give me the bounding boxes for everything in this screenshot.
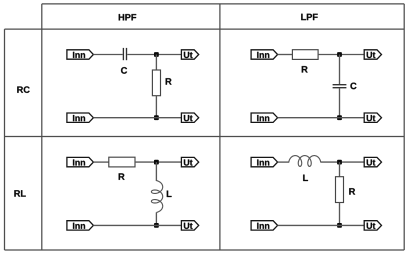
label L (L1 value): [167, 191, 172, 197]
port Ut (RL-LPF top output): [364, 157, 381, 166]
port Inn (RL-LPF top input): [251, 157, 278, 166]
wire R4 to bottom rail: [339, 203, 341, 226]
port Ut (RL-LPF bottom output): [364, 221, 381, 230]
port Ut (RL-HPF bottom output): [181, 221, 198, 230]
node junction top (RL-LPF): [337, 160, 342, 165]
wire Inn to R3: [93, 161, 108, 163]
wire R1 to bottom rail: [155, 96, 157, 118]
port Inn (RL-LPF bottom input): [251, 221, 278, 230]
wire R3 to Ut: [135, 161, 181, 163]
wire L2 to Ut: [320, 161, 364, 163]
column header HPF: [119, 14, 136, 20]
resistor R1 (shunt): [152, 70, 160, 96]
port Inn (RC-HPF top input): [67, 50, 94, 59]
label R (R4 value): [349, 188, 355, 194]
wire L1 to bottom rail: [155, 212, 157, 225]
resistor R3 (series): [109, 157, 135, 167]
node junction top (RL-HPF): [154, 160, 159, 165]
resistor R2 (series): [292, 50, 318, 60]
label R (R3 value): [119, 173, 125, 179]
port Ut (RC-HPF bottom output): [181, 113, 198, 122]
column header LPF: [301, 14, 317, 20]
port Ut (RC-LPF bottom output): [364, 113, 381, 122]
wire C1 to Ut: [127, 54, 181, 56]
wire Inn to C1: [93, 54, 122, 56]
wire junction to L1: [155, 162, 157, 181]
node junction bottom (RC-HPF): [154, 115, 159, 120]
node junction bottom (RL-HPF): [154, 223, 159, 228]
label L (L2 value): [303, 175, 308, 181]
resistor R4 (shunt): [336, 177, 344, 203]
capacitor C1: [123, 48, 126, 60]
port Ut (RC-LPF top output): [364, 50, 381, 59]
wire bottom rail (RC-HPF): [93, 117, 181, 119]
wire bottom rail (RL-LPF): [278, 224, 365, 226]
label R (R2 value): [302, 66, 308, 72]
wire Inn to R2: [278, 54, 293, 56]
wire junction to R4: [339, 162, 341, 177]
label R (R1 value): [166, 78, 172, 84]
wire junction to C2: [339, 55, 341, 85]
wire junction to R1: [155, 55, 157, 71]
wire bottom rail (RL-HPF): [93, 224, 181, 226]
node junction bottom (RC-LPF): [337, 115, 342, 120]
port Ut (RC-HPF top output): [181, 50, 198, 59]
node junction top (RC-HPF): [154, 52, 159, 57]
port Inn (RC-HPF bottom input): [67, 113, 94, 122]
wire R2 to Ut: [318, 54, 364, 56]
wire Inn to L2: [278, 161, 290, 163]
wire bottom rail (RC-LPF): [278, 117, 365, 119]
capacitor C2 (shunt): [333, 85, 347, 88]
row header RL: [14, 190, 25, 196]
inductor L2 (series coil): [289, 156, 321, 167]
port Ut (RL-HPF top output): [181, 157, 198, 166]
port Inn (RC-LPF bottom input): [251, 113, 278, 122]
label C (C1 value): [121, 67, 127, 74]
port Inn (RL-HPF bottom input): [67, 221, 94, 230]
row header RC: [17, 86, 29, 93]
port Inn (RL-HPF top input): [67, 157, 94, 166]
inductor L1 (shunt coil): [151, 181, 162, 213]
label C (C2 value): [350, 83, 356, 90]
node junction top (RC-LPF): [337, 52, 342, 57]
wire C2 to bottom rail: [339, 88, 341, 117]
node junction bottom (RL-LPF): [337, 223, 342, 228]
port Inn (RC-LPF top input): [251, 50, 278, 59]
